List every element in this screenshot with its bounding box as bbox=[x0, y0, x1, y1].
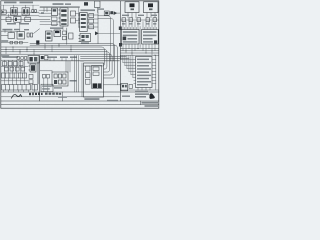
wire lower-left rail bbox=[1, 59, 28, 61]
handwritten date bbox=[29, 93, 43, 96]
resistor pack RP1 bbox=[89, 14, 94, 29]
resistor R12 bbox=[14, 62, 18, 66]
resistor R6 inline bbox=[15, 41, 18, 44]
U11 internal labels bbox=[137, 59, 151, 86]
wire net corner 2 bbox=[98, 19, 113, 61]
wire drops to U2 pins bbox=[123, 22, 155, 30]
wire K5 feed bbox=[40, 70, 52, 72]
wire R18 drops bbox=[44, 78, 48, 92]
section divider vertical x=120 bbox=[119, 1, 121, 101]
U3 top pin ticks bbox=[145, 27, 157, 29]
value labels row2 bbox=[7, 23, 29, 25]
transistor Q4 bbox=[98, 83, 102, 88]
flipflop U8 bbox=[46, 31, 53, 41]
transformer T3 bbox=[14, 17, 21, 23]
wire feeds from left bbox=[39, 10, 52, 16]
wire horiz into U11 pins bbox=[121, 60, 136, 78]
border frame bbox=[1, 1, 159, 108]
U11 right pins bbox=[152, 60, 156, 84]
wire under row1 bbox=[1, 15, 39, 17]
table row text bbox=[45, 93, 61, 95]
wire T1 leads bbox=[128, 13, 136, 18]
label ticks top bbox=[17, 57, 27, 60]
regulator U2 bbox=[121, 29, 139, 44]
scan grain overlay bbox=[0, 0, 160, 110]
connector strip P1 bbox=[2, 85, 31, 90]
connector tab CN2 bbox=[119, 27, 122, 31]
legend box bbox=[41, 84, 53, 91]
terminal TB2 bbox=[45, 56, 48, 60]
wire stubs top bbox=[4, 5, 34, 10]
capacitor C23 bbox=[86, 79, 91, 84]
junction dots right bus bbox=[125, 48, 155, 56]
inner board PS1 bbox=[92, 65, 102, 88]
diode value labels bbox=[122, 23, 156, 24]
note text block bbox=[135, 91, 149, 98]
wire right column verts bbox=[37, 62, 38, 84]
cpu U11 bbox=[136, 57, 153, 88]
wire cluster rails bottom bbox=[40, 22, 60, 25]
wire lower-left rail2 bbox=[1, 80, 28, 82]
wire vert group right of band bbox=[75, 56, 79, 92]
resistor R18 bbox=[43, 74, 50, 78]
wire between regulators bbox=[139, 27, 141, 48]
diode D5 bbox=[146, 18, 150, 22]
wire mid-left rail bbox=[1, 34, 8, 36]
wire pin stubs to rule bbox=[4, 90, 35, 92]
resistor R1 bbox=[6, 17, 11, 21]
value label K5 bbox=[54, 80, 77, 89]
relay K1 bbox=[11, 8, 18, 15]
buffer U4 bbox=[78, 13, 87, 32]
wire stub bbox=[46, 8, 48, 12]
terminal ticks bbox=[50, 58, 72, 60]
wire D8 out bbox=[99, 32, 120, 34]
value label bbox=[50, 27, 63, 29]
capacitor C14 bbox=[16, 67, 20, 71]
driver U10 bbox=[28, 56, 39, 63]
transistor Q1 bbox=[29, 64, 36, 72]
U11 left pins low bbox=[134, 81, 136, 84]
transistor Q3 bbox=[93, 83, 97, 88]
data bus A pair bbox=[30, 44, 117, 85]
capacitor C1 bbox=[32, 10, 37, 13]
wire top rail bbox=[1, 4, 39, 6]
capacitor C9 bbox=[27, 33, 33, 37]
regulator U3 bbox=[142, 29, 159, 44]
connector strip P2 bbox=[2, 73, 27, 78]
wire cluster to U4 bbox=[76, 14, 80, 21]
wire net corner 1 bbox=[98, 16, 110, 61]
wire right vertical bbox=[155, 55, 157, 90]
diode D9 inline bbox=[10, 41, 13, 44]
legend text bbox=[42, 85, 52, 89]
label CLK GEN bbox=[53, 3, 72, 5]
title block divider small bbox=[140, 101, 142, 105]
section divider vertical x=40 bbox=[39, 56, 41, 102]
label near fuse bbox=[98, 8, 105, 9]
capacitor pair C18 bbox=[32, 85, 38, 90]
label PS1 bbox=[84, 98, 99, 100]
wire stub bbox=[43, 8, 45, 12]
U2 top pin ticks bbox=[125, 27, 137, 29]
capacitor C5 bbox=[71, 11, 76, 16]
title text CPU and Tape PCB bbox=[142, 102, 159, 107]
wire row connectors bbox=[9, 14, 27, 31]
wire PS1 left edge bbox=[81, 63, 83, 97]
resistor R13 bbox=[19, 62, 23, 66]
capacitor C8 bbox=[84, 2, 88, 5]
label mid-left2 bbox=[1, 40, 8, 42]
wire band rule bbox=[40, 60, 120, 62]
wire row2 bbox=[1, 18, 50, 20]
label lower-left bbox=[2, 56, 18, 58]
U11 bottom pins bbox=[138, 88, 150, 91]
wire net V1 bbox=[97, 12, 99, 43]
diode D6 bbox=[153, 18, 157, 22]
label under A1 bbox=[81, 42, 89, 43]
diode D2 bbox=[122, 18, 126, 22]
wire pre-U4 column bbox=[78, 8, 80, 26]
wire clock rail bbox=[40, 7, 80, 9]
connector tab CN3 bbox=[119, 43, 122, 47]
resistor R10 bbox=[3, 62, 7, 66]
capacitor C6 bbox=[71, 18, 76, 23]
U2 internal labels bbox=[123, 31, 138, 42]
data bus B bbox=[81, 56, 130, 58]
diode pack DP1 bbox=[29, 74, 33, 83]
net tag quotes bbox=[41, 12, 44, 14]
wire clock rail2 bbox=[40, 6, 80, 8]
counter U5 bbox=[59, 8, 68, 26]
connector J1 bbox=[1, 10, 6, 14]
title block rule y=92 bbox=[1, 91, 159, 93]
wire rectifier rail bbox=[121, 19, 158, 21]
capacitor C12 bbox=[5, 67, 9, 71]
wire drops to K5 bbox=[66, 61, 70, 72]
relay module K5 bbox=[52, 72, 68, 86]
junction ticks on bus bbox=[6, 44, 71, 55]
wire K5 feed vert bbox=[51, 71, 53, 72]
terminal TB1 bbox=[41, 56, 44, 59]
diode D4 bbox=[137, 18, 141, 22]
wire ml rail bbox=[1, 30, 17, 32]
capacitor C11 bbox=[110, 11, 113, 14]
gate U7 bbox=[17, 32, 25, 39]
connector J5 bbox=[121, 84, 128, 91]
U2 bottom pins bbox=[123, 44, 138, 55]
capacitor C15 bbox=[21, 67, 25, 71]
capacitor C10 bbox=[69, 33, 73, 39]
title block rule y=96.8 bbox=[1, 96, 120, 98]
label buffer bbox=[81, 9, 96, 11]
label mid-left bbox=[2, 29, 29, 31]
wire stub mid bbox=[66, 28, 68, 44]
varistor RV1 bbox=[104, 11, 109, 15]
capacitor C22 bbox=[86, 73, 91, 78]
label right of PS1 bbox=[107, 100, 118, 102]
diode D3 bbox=[129, 18, 133, 22]
wire T2 leads bbox=[147, 13, 155, 18]
wire fuse drop bbox=[97, 8, 99, 13]
node label J10 CR5 text bbox=[4, 2, 33, 4]
wire under U11 bbox=[121, 89, 158, 91]
terminal labels band bbox=[47, 56, 77, 58]
label rectifier row bbox=[122, 15, 157, 16]
label bottom middle bbox=[58, 96, 67, 97]
component A1 bbox=[79, 33, 91, 41]
wire diagonal bbox=[34, 29, 40, 34]
data bus A line1 bbox=[1, 47, 112, 75]
junction dots left bus bbox=[5, 45, 71, 55]
resistor R20 bbox=[93, 67, 99, 75]
label under J5 bbox=[122, 96, 130, 97]
oscillator X1 bbox=[52, 8, 58, 16]
capacitor C21 bbox=[86, 66, 91, 71]
diode D8 bbox=[95, 31, 99, 35]
wire columns lower-left bbox=[5, 60, 25, 84]
fuse F1 bbox=[95, 1, 100, 8]
capacitor C17 bbox=[52, 17, 58, 25]
title block rule y=104.6 bbox=[1, 104, 159, 106]
wire PS1 to J5 bbox=[104, 84, 122, 86]
capacitor C24 bbox=[129, 84, 132, 88]
wire PS1 feed bbox=[81, 60, 84, 62]
diode D1 bbox=[114, 11, 118, 15]
wire verts to U11 bbox=[121, 55, 133, 77]
resistor R2 bbox=[25, 17, 31, 21]
transformer T1 bbox=[125, 2, 139, 13]
wire U4 to net bbox=[87, 15, 98, 27]
power module PS1 bbox=[84, 63, 104, 97]
capacitor C16 dark bbox=[36, 40, 39, 44]
resistor R7 inline bbox=[20, 41, 23, 44]
wire cross rails lower-left bbox=[1, 66, 28, 68]
gate U6 bbox=[8, 33, 15, 39]
relay K2 bbox=[22, 8, 30, 15]
U3 bottom pins bbox=[143, 44, 155, 55]
revision mark squiggle bbox=[12, 95, 22, 98]
capacitor C13 bbox=[10, 67, 14, 71]
wire ml stubs bbox=[5, 30, 11, 33]
wire diode out bbox=[109, 12, 120, 14]
label bus left bbox=[1, 55, 9, 57]
approval stamp mark bbox=[149, 93, 154, 99]
power bus right section bbox=[121, 49, 159, 56]
resistor R5 bbox=[63, 31, 67, 40]
title block divider left bbox=[62, 92, 64, 101]
U3 internal labels bbox=[143, 31, 157, 42]
title block rule y=101 bbox=[1, 100, 159, 102]
wire row1 bbox=[1, 11, 39, 13]
transformer T2 bbox=[144, 2, 159, 13]
wire inline row bbox=[1, 42, 28, 44]
inverter U9 bbox=[54, 30, 61, 37]
wire U5 drop bbox=[57, 26, 63, 31]
resistor R11 bbox=[8, 62, 12, 66]
